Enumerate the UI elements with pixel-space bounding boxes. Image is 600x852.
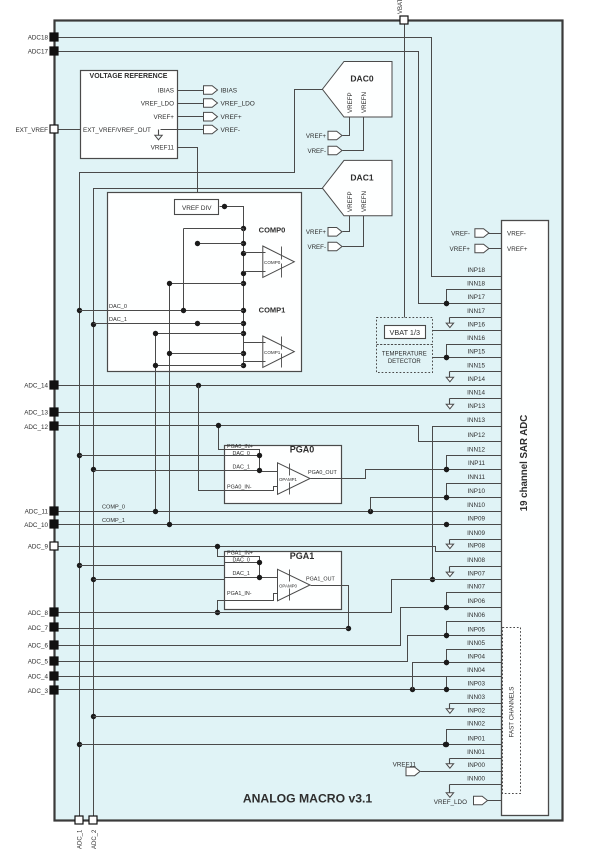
pin ADC_3 (28, 686, 58, 695)
wire COMP1 minus (244, 342, 266, 344)
svg-text:INP09: INP09 (467, 515, 485, 522)
wire DAC0 output bus (80, 90, 323, 817)
wire ADC_1 to INP01 (80, 742, 502, 747)
wire INN06 tie INP05 bracket (444, 622, 502, 639)
wire INN14 hook (446, 399, 501, 409)
wire PGA0_IN+ (216, 423, 278, 472)
pga PGA1 (225, 550, 342, 609)
svg-text:VREFP: VREFP (347, 191, 354, 212)
wire VBAT13 to INP16 (433, 330, 502, 332)
svg-text:VREF-: VREF- (307, 148, 326, 155)
vbat monitor (377, 318, 433, 345)
wire INN03 hook (446, 704, 501, 714)
junction DAC_1 pga0 tap (91, 467, 96, 472)
svg-text:IBIAS: IBIAS (158, 87, 174, 94)
title ANALOG MACRO v3.1 (243, 792, 373, 806)
svg-text:DAC_1: DAC_1 (233, 464, 250, 470)
svg-text:OPAMP0: OPAMP0 (279, 583, 298, 588)
svg-text:PGA0: PGA0 (290, 445, 315, 455)
dac D1 (322, 160, 392, 215)
svg-text:INN10: INN10 (467, 502, 485, 509)
svg-text:ADC_9: ADC_9 (28, 543, 49, 550)
svg-text:VREF+: VREF+ (306, 133, 327, 140)
svg-text:INP02: INP02 (467, 707, 485, 714)
pin ADC_7 (28, 623, 58, 632)
svg-text:INP16: INP16 (467, 322, 485, 329)
svg-text:VREF-: VREF- (507, 230, 526, 237)
net flag VREF+ (178, 112, 242, 121)
svg-text:INP06: INP06 (467, 598, 485, 605)
wire COMP_0 sense vert (155, 334, 157, 512)
svg-text:INN11: INN11 (468, 474, 486, 481)
wire PGA0 DAC_1 (225, 468, 263, 473)
svg-text:VREFN: VREFN (361, 92, 368, 113)
wire PGA0 dac feed b (94, 470, 225, 472)
svg-text:INN18: INN18 (467, 280, 485, 287)
comp row 4 (153, 331, 244, 336)
wire TEMP to INP15 (433, 355, 502, 360)
svg-text:EXT_VREF: EXT_VREF (15, 127, 48, 134)
svg-text:INN03: INN03 (467, 694, 485, 701)
svg-text:INN08: INN08 (467, 557, 485, 564)
junction DAC_0 comp tap (77, 308, 82, 313)
svg-text:ADC_2: ADC_2 (92, 829, 98, 849)
wire COMP_0 riser to INP10 (371, 495, 502, 512)
svg-text:ADC_12: ADC_12 (24, 424, 48, 431)
svg-text:INN17: INN17 (467, 308, 485, 315)
svg-text:ADC_13: ADC_13 (24, 409, 48, 416)
svg-text:INP15: INP15 (467, 349, 485, 356)
svg-text:VREF_LDO: VREF_LDO (141, 100, 174, 107)
net flag DAC0 VREF+ (306, 118, 350, 141)
svg-text:INN15: INN15 (467, 362, 485, 369)
wire COMP1 plus (244, 361, 266, 363)
comp row 5 (167, 351, 244, 356)
pin ADC_8 (28, 608, 58, 617)
svg-text:ADC_6: ADC_6 (28, 642, 49, 649)
svg-text:INN04: INN04 (467, 667, 485, 674)
vref divider (175, 200, 219, 215)
pin ADC_11 (25, 507, 58, 515)
wire PGA1 dac feed b (94, 579, 225, 581)
wire ADC_3 riser to INP04 (413, 660, 502, 690)
svg-text:IBIAS: IBIAS (221, 87, 238, 94)
junction INP17 (444, 301, 449, 306)
SAR VREF- port label (507, 230, 526, 237)
svg-text:VREF_LDO: VREF_LDO (434, 799, 467, 806)
pin ADC_9 (28, 542, 58, 550)
wire ADC_3 to INP03 (59, 687, 502, 692)
svg-text:INN09: INN09 (467, 530, 485, 537)
junction ADC_1 INP01 tap (77, 742, 82, 747)
wire INN04 tie INP03 bracket (444, 677, 502, 693)
wire VREF11 (178, 148, 198, 200)
wire PGA1_OUT (311, 586, 352, 632)
pin ADC_13 (24, 408, 58, 416)
net flag DAC0 VREF- (307, 118, 363, 156)
junction DAC_1 pga1 tap (91, 577, 96, 582)
svg-text:INN01: INN01 (467, 749, 485, 756)
svg-text:VREF-: VREF- (221, 127, 241, 134)
wire PGA1 DAC_1 (225, 575, 263, 580)
wire PGA0 DAC_0 (225, 453, 263, 458)
svg-text:EXT_VREF/VREF_OUT: EXT_VREF/VREF_OUT (83, 127, 151, 134)
junction DAC_0 pga0 tap (77, 453, 82, 458)
pga PGA0 (225, 444, 342, 504)
svg-text:ADC_4: ADC_4 (28, 673, 49, 680)
label COMP1 (259, 306, 286, 315)
svg-text:INN05: INN05 (467, 640, 485, 647)
svg-text:INN13: INN13 (467, 417, 485, 424)
svg-text:VBAT: VBAT (398, 0, 404, 14)
svg-text:ADC18: ADC18 (28, 35, 49, 42)
analog macro outer boundary (55, 21, 563, 821)
wire PGA0_OUT to INP11 (311, 467, 502, 479)
svg-text:COMP1: COMP1 (264, 350, 281, 355)
svg-text:ADC17: ADC17 (28, 49, 49, 56)
svg-text:INN12: INN12 (467, 447, 485, 454)
svg-text:INN00: INN00 (467, 776, 485, 783)
svg-text:COMP_0: COMP_0 (102, 505, 125, 511)
wire INN02 tie INP01 bracket (444, 730, 502, 748)
wire INN00 hook (446, 785, 501, 798)
pin ADC18 (28, 33, 58, 42)
svg-text:PGA1: PGA1 (290, 551, 315, 561)
wire COMP_1 sense vert (169, 284, 171, 525)
wire PGA0 dac feed a (80, 455, 225, 457)
19 channel SAR ADC U3 (502, 221, 549, 816)
wire COMP_0 to INN10 (59, 505, 502, 515)
opamp OPAMP1 (278, 463, 311, 495)
wire ADC18 to INP18 (59, 38, 502, 277)
svg-text:COMP0: COMP0 (264, 260, 281, 265)
svg-text:VREF+: VREF+ (221, 114, 242, 121)
comp bus vertical (241, 229, 246, 369)
wire ADC_5 to INP05 (59, 633, 502, 662)
net flag DAC1 VREF- (307, 216, 363, 252)
FAST CHANNELS dashed group (503, 628, 521, 794)
svg-text:INN02: INN02 (467, 721, 485, 728)
wire PGA1 dac feed a (80, 563, 225, 566)
wire VBAT (404, 25, 406, 318)
svg-text:VOLTAGE REFERENCE: VOLTAGE REFERENCE (90, 73, 168, 80)
wire INN18 tie INP17 bracket (444, 290, 502, 307)
pin ADC_6 (28, 641, 58, 649)
wire COMP_1 to INP09 (59, 518, 502, 527)
wire INN01 hook (446, 759, 501, 769)
pin ADC_14 (24, 381, 58, 389)
wire DAC_0 comp (80, 304, 244, 313)
wire ADC_6 to INP06 (59, 605, 502, 646)
svg-text:DAC1: DAC1 (350, 173, 373, 183)
svg-text:PGA1_IN-: PGA1_IN- (227, 591, 252, 597)
wire ADC_12 to INP12 (59, 426, 502, 442)
svg-text:VREFP: VREFP (347, 92, 354, 113)
junction DAC_1 comp tap (91, 322, 96, 327)
comp row 2 (195, 241, 244, 246)
temperature detector (377, 345, 433, 373)
svg-text:VREF DIV: VREF DIV (182, 205, 212, 212)
net flag IBIAS (178, 86, 238, 95)
wire INN12 tie INP11 bracket (444, 456, 502, 473)
svg-text:ADC_14: ADC_14 (24, 382, 48, 389)
comp tap vert A (183, 229, 185, 311)
svg-text:INN14: INN14 (467, 389, 485, 396)
pin ADC_12 (24, 422, 58, 431)
pin ADC_5 (28, 657, 58, 665)
wire INN08 hook (446, 567, 501, 577)
svg-text:19 channel SAR ADC: 19 channel SAR ADC (519, 415, 530, 512)
svg-text:VREF+: VREF+ (450, 246, 471, 253)
svg-text:OPAMP1: OPAMP1 (279, 477, 298, 482)
svg-text:ANALOG MACRO v3.1: ANALOG MACRO v3.1 (243, 792, 373, 806)
wire DAC_1 comp (94, 317, 244, 326)
wire INN16 tie INP15 bracket (444, 345, 502, 361)
net flag DAC1 VREF+ (306, 216, 350, 237)
SAR ADC input port labels INP18-INN00 (467, 267, 485, 783)
svg-text:VREF11: VREF11 (151, 144, 175, 151)
svg-text:DAC_1: DAC_1 (233, 571, 250, 577)
svg-text:TEMPERATURE: TEMPERATURE (382, 352, 427, 358)
wire DAC1 output bus (94, 189, 323, 817)
svg-text:INP04: INP04 (467, 653, 485, 660)
svg-text:INN16: INN16 (467, 335, 485, 342)
svg-text:DETECTOR: DETECTOR (388, 359, 422, 365)
junction ADC_2 INP02 tap (91, 714, 96, 719)
svg-text:ADC_1: ADC_1 (78, 829, 84, 849)
svg-text:VREFN: VREFN (361, 191, 368, 212)
svg-text:INP17: INP17 (467, 294, 485, 301)
wire ADC_14 to INP14 (59, 383, 502, 388)
pin ADC_4 (28, 672, 58, 680)
wire INN05 tie INP04 bracket (444, 650, 502, 666)
svg-text:INP08: INP08 (467, 543, 485, 550)
svg-text:ADC_8: ADC_8 (28, 610, 49, 617)
label PGA1_OUT (306, 577, 335, 583)
pin ADC_1 (75, 816, 84, 849)
wire PGA1 DAC_0 (225, 560, 263, 565)
wire PGA0_IN- (199, 386, 278, 491)
svg-text:INP13: INP13 (467, 403, 485, 410)
wire INN13 riser to INP07 (430, 427, 502, 583)
svg-text:INN06: INN06 (467, 612, 485, 619)
svg-text:ADC_3: ADC_3 (28, 688, 49, 695)
svg-text:INP05: INP05 (467, 626, 485, 633)
svg-text:ADC_7: ADC_7 (28, 625, 49, 632)
svg-text:INP01: INP01 (467, 735, 485, 742)
svg-text:ADC_5: ADC_5 (28, 658, 49, 665)
svg-text:FAST CHANNELS: FAST CHANNELS (509, 687, 516, 738)
comparator COMP1 (263, 336, 295, 368)
svg-text:VREF-: VREF- (307, 244, 326, 251)
label PGA0_OUT (308, 470, 337, 476)
net flag SAR VREF+ (450, 244, 502, 253)
svg-text:VREF+: VREF+ (306, 229, 327, 236)
svg-text:INP11: INP11 (468, 460, 486, 467)
svg-text:INP14: INP14 (467, 376, 485, 383)
wire INN11 tie INP10 bracket (444, 484, 502, 501)
wire COMP0 minus (244, 252, 266, 254)
net flag VREF11 to INP00 (393, 762, 502, 776)
pin ADC_10 (24, 520, 58, 529)
wire ADC_13 to INP13 (59, 412, 502, 414)
wire ADC_7 PGA1 monitor (59, 628, 349, 630)
wire ADC_9 to INP08 (59, 547, 502, 552)
net flag VREF_LDO (178, 99, 255, 108)
svg-text:INP18: INP18 (467, 267, 485, 274)
wire vrefdiv out (220, 204, 247, 231)
svg-text:PGA0_OUT: PGA0_OUT (308, 470, 337, 476)
label COMP0 (259, 226, 286, 235)
svg-text:INP10: INP10 (467, 488, 485, 495)
comp row 6 (153, 363, 244, 368)
svg-text:VREF_LDO: VREF_LDO (221, 100, 255, 107)
svg-text:VREF+: VREF+ (507, 246, 528, 253)
voltage reference U4 (81, 71, 178, 159)
net flag VREF- (161, 125, 241, 134)
wire ADC_2 to INP02 (94, 716, 502, 718)
wire COMP0 plus (244, 271, 266, 273)
net flag SAR VREF- (451, 229, 501, 238)
pin EXT_VREF (15, 125, 58, 134)
opamp OPAMP0 (278, 569, 311, 601)
svg-text:ADC_10: ADC_10 (24, 522, 48, 529)
svg-text:COMP1: COMP1 (259, 306, 286, 315)
svg-text:INP07: INP07 (467, 571, 485, 578)
svg-text:PGA1_OUT: PGA1_OUT (306, 577, 335, 583)
svg-text:INP00: INP00 (467, 762, 485, 769)
wire INN09 hook (446, 540, 501, 549)
wire PGA1_IN+ (215, 544, 278, 578)
dac D0 (322, 62, 392, 118)
svg-text:DAC0: DAC0 (350, 74, 373, 84)
svg-text:PGA0_IN-: PGA0_IN- (227, 485, 252, 491)
wire INN17 hook (446, 318, 501, 328)
svg-text:COMP_1: COMP_1 (102, 518, 125, 524)
vref_out hook arrow (155, 130, 162, 140)
wire ADC_4 to INN04 (59, 676, 502, 678)
pin ADC_2 (89, 816, 98, 849)
wire INN15 hook (446, 372, 501, 382)
svg-text:INP12: INP12 (467, 432, 485, 439)
svg-text:VREF-: VREF- (451, 230, 470, 237)
svg-text:INN07: INN07 (467, 584, 485, 591)
svg-text:COMP0: COMP0 (259, 226, 286, 235)
wire ADC_8 to INP07 (59, 580, 502, 613)
svg-text:PGA1_IN+: PGA1_IN+ (227, 550, 253, 556)
svg-text:VBAT 1/3: VBAT 1/3 (390, 328, 421, 337)
svg-text:INP03: INP03 (467, 681, 485, 688)
wire ADC17 to INP17 (59, 52, 502, 304)
svg-text:DAC_1: DAC_1 (109, 317, 127, 323)
wire INN07 tie INP06 bracket (444, 593, 502, 611)
wire PGA1_IN- (215, 594, 278, 616)
svg-text:ADC_11: ADC_11 (25, 508, 49, 515)
net flag VREF_LDO bottom (434, 796, 502, 806)
comp row 1 (184, 228, 244, 230)
comparator COMP0 (263, 246, 295, 278)
wire EXT_VREF (59, 129, 81, 131)
pin ADC17 (28, 47, 58, 56)
svg-text:VREF+: VREF+ (154, 114, 175, 121)
comparator block (108, 193, 302, 372)
svg-text:DAC_0: DAC_0 (109, 304, 127, 310)
pin VBAT (398, 0, 408, 24)
comp row 3 (167, 281, 244, 286)
junction DAC_0 pga1 tap (77, 563, 82, 568)
SAR VREF+ port label (507, 246, 528, 253)
